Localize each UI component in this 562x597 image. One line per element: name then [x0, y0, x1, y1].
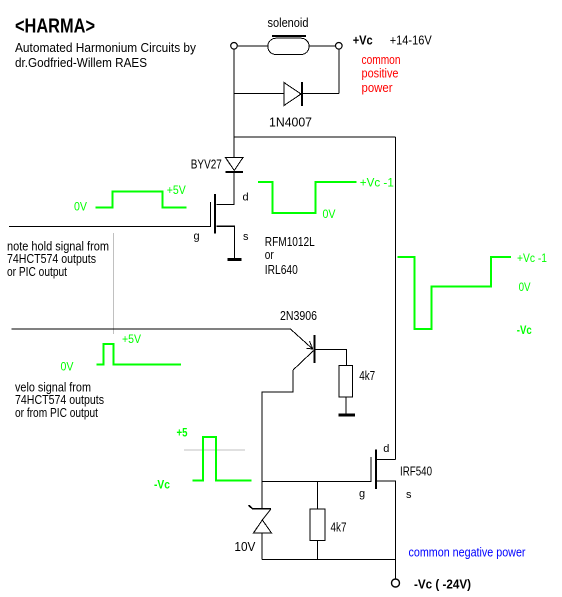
diode D1 cathode bar	[301, 82, 303, 106]
zener diode ZD1 cathode bar	[249, 505, 271, 508]
wire Q2 base to R1	[316, 349, 347, 365]
wire Q3 source lead	[377, 481, 396, 560]
wire left rail from terminal down to BYV27	[233, 49, 235, 157]
wire gate node	[262, 480, 371, 482]
wire coil to right terminal	[309, 45, 335, 47]
svg-text:or from PIC output: or from PIC output	[15, 405, 98, 420]
transistor Q1 gate bar	[210, 202, 212, 227]
svg-text:or: or	[265, 247, 275, 262]
solenoid terminal right	[336, 43, 343, 50]
wire zener top	[261, 481, 263, 508]
transistor Q3 gate bar	[370, 457, 372, 482]
wire to terminal	[395, 560, 397, 580]
svg-text:g: g	[359, 488, 365, 500]
svg-text:dr.Godfried-Willem RAES: dr.Godfried-Willem RAES	[15, 55, 147, 70]
transistor Q2 base bar	[313, 335, 315, 363]
svg-text:positive: positive	[362, 66, 399, 81]
svg-text:d: d	[243, 192, 249, 204]
transistor Q2 emitter arrow	[310, 341, 313, 348]
svg-text:IRL640: IRL640	[265, 262, 298, 277]
svg-text:power: power	[362, 80, 394, 95]
svg-text:s: s	[406, 489, 412, 501]
wire Q1 source lead	[216, 226, 234, 258]
wire zener bottom	[261, 534, 263, 560]
svg-text:4k7: 4k7	[359, 368, 375, 383]
gate waveform	[193, 437, 252, 480]
wire top cross to right rail	[234, 136, 396, 138]
svg-text:0V: 0V	[519, 280, 531, 294]
svg-text:+5V: +5V	[122, 332, 141, 346]
note hold waveform	[96, 192, 187, 208]
wire Q1 drain lead	[216, 173, 234, 205]
gray 0V level line	[184, 449, 245, 451]
svg-text:BYV27: BYV27	[191, 156, 222, 171]
svg-text:<HARMA>: <HARMA>	[15, 16, 95, 38]
wire negative rail	[262, 559, 396, 561]
svg-text:common negative power: common negative power	[409, 544, 527, 559]
diode D2 cathode bar	[226, 171, 244, 173]
output waveform	[398, 257, 511, 329]
wire Q1 gate lead	[9, 225, 211, 227]
transistor Q1 channel bar	[214, 194, 216, 233]
svg-text:+Vc -1: +Vc -1	[517, 251, 547, 265]
svg-text:Automated Harmonium Circuits b: Automated Harmonium Circuits by	[15, 40, 196, 55]
svg-text:1N4007: 1N4007	[269, 114, 312, 129]
wire Q3 drain lead	[377, 459, 396, 461]
svg-text:-Vc ( -24V): -Vc ( -24V)	[414, 577, 471, 592]
wire R1 to ground	[345, 397, 347, 414]
zener diode ZD1 triangle	[254, 520, 272, 533]
svg-text:0V: 0V	[61, 359, 74, 373]
resistor R2 body	[310, 509, 325, 540]
wire R2 top	[317, 481, 319, 509]
solenoid core bar	[272, 35, 306, 37]
svg-text:+Vc -1: +Vc -1	[360, 175, 394, 189]
wire right terminal down to flyback diode	[338, 49, 340, 93]
svg-text:+14-16V: +14-16V	[390, 33, 432, 48]
ground	[228, 258, 242, 261]
svg-text:0V: 0V	[74, 199, 87, 213]
svg-text:+Vc: +Vc	[353, 33, 373, 48]
resistor R1 body	[339, 365, 352, 397]
diode D1 1N4007 triangle	[284, 83, 301, 106]
wire left terminal to coil	[238, 45, 268, 47]
svg-text:+5: +5	[177, 426, 188, 440]
svg-text:10V: 10V	[234, 539, 255, 554]
wire R2 bottom	[317, 540, 319, 559]
solenoid terminal left	[231, 43, 238, 50]
svg-text:d: d	[383, 443, 389, 455]
svg-text:s: s	[243, 231, 249, 243]
wire right rail	[395, 137, 397, 460]
velo waveform	[97, 344, 181, 365]
diode D2 BYV27 triangle	[226, 158, 244, 171]
svg-text:-Vc: -Vc	[517, 323, 532, 337]
wire velo signal	[12, 328, 291, 330]
transistor Q3 channel bar	[375, 449, 377, 489]
svg-text:solenoid: solenoid	[268, 15, 309, 30]
svg-text:or PIC output: or PIC output	[7, 264, 67, 279]
transistor Q2 collector	[293, 351, 313, 370]
svg-text:0V: 0V	[323, 207, 336, 221]
wire Q2 collector path	[262, 370, 293, 482]
terminal -Vc	[392, 579, 400, 587]
drain waveform	[258, 182, 357, 213]
ground	[339, 414, 356, 417]
wire flyback left segment	[234, 93, 284, 95]
solenoid coil body	[268, 38, 309, 54]
svg-text:IRF540: IRF540	[400, 464, 432, 479]
wire flyback right segment	[302, 93, 339, 95]
svg-text:2N3906: 2N3906	[280, 308, 317, 323]
svg-text:-Vc: -Vc	[154, 478, 170, 492]
svg-text:4k7: 4k7	[331, 520, 347, 535]
gray divider line	[113, 233, 115, 334]
svg-text:g: g	[194, 231, 200, 243]
svg-text:+5V: +5V	[167, 183, 186, 197]
transistor Q2 emitter	[290, 329, 313, 349]
